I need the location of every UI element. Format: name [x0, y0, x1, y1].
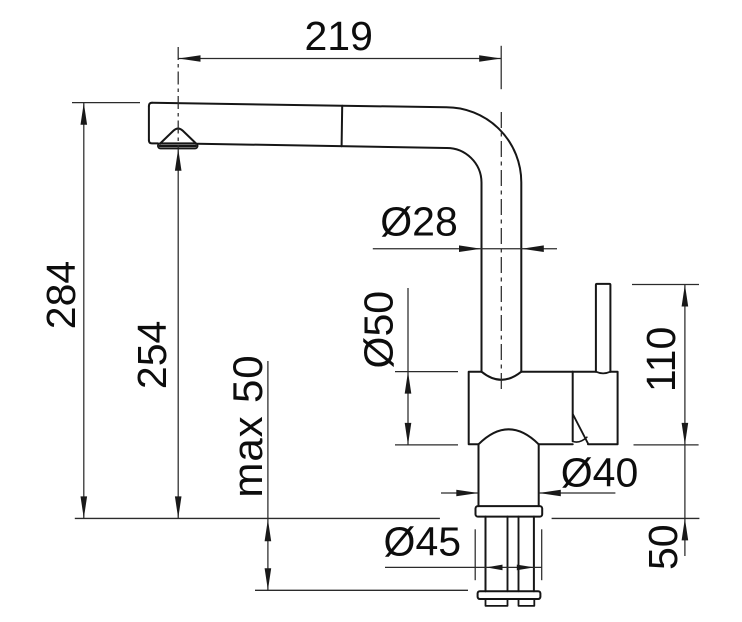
- arrow Ø45 left: [486, 565, 502, 571]
- aerator nozzle triangle: [160, 129, 196, 144]
- extension line 284 top: [72, 102, 140, 104]
- tail end tab right: [519, 599, 535, 606]
- extension line Ø50 bottom: [395, 444, 458, 446]
- spout joint line: [341, 106, 344, 146]
- arrow Ø45 right: [517, 565, 534, 571]
- handle cap: [573, 372, 618, 445]
- extension line 110 top: [632, 284, 699, 286]
- arrow max50 up: [265, 519, 272, 541]
- countertop line left: [75, 517, 440, 519]
- svg-text:254: 254: [129, 321, 175, 389]
- arrow max50 down: [265, 568, 272, 590]
- lower clamp plate: [478, 591, 541, 599]
- arrow 219 right: [479, 55, 501, 62]
- extension line Ø50 top: [395, 371, 458, 373]
- dimension line 110 and 50: [684, 285, 686, 557]
- lever motion arc: [573, 437, 587, 442]
- aerator plate: [158, 143, 198, 148]
- arrow 110 down: [682, 423, 689, 445]
- mounting flange: [476, 506, 543, 516]
- extension line 110 bottom: [634, 444, 699, 446]
- arrow 50 up: [682, 518, 689, 540]
- arrow 254 down: [175, 496, 182, 518]
- extension line Ø45 right: [541, 529, 543, 580]
- extension line 219 right: [500, 46, 502, 89]
- arrow Ø50 up: [405, 372, 412, 394]
- dimension line Ø45: [385, 566, 542, 568]
- lever base fillet: [596, 372, 611, 374]
- arrow 284 down: [81, 496, 88, 518]
- svg-text:Ø45: Ø45: [384, 519, 462, 565]
- arrow Ø40 left: [456, 490, 478, 497]
- dimension line 254: [177, 149, 179, 519]
- spout tube outline: [149, 103, 521, 372]
- svg-text:Ø40: Ø40: [561, 450, 639, 496]
- aerator centerline: [177, 47, 179, 148]
- arrow 254 up: [175, 149, 182, 171]
- threaded tail tube: [486, 517, 534, 592]
- pipe centerline: [500, 112, 502, 390]
- inner hose lines: [508, 517, 519, 592]
- arrow 284 up: [81, 103, 88, 125]
- dimension line max 50: [267, 361, 269, 590]
- countertop line right: [552, 517, 700, 519]
- body block: [469, 372, 573, 445]
- arrow 110 up: [682, 285, 689, 307]
- svg-text:Ø50: Ø50: [355, 291, 401, 369]
- svg-text:219: 219: [304, 13, 372, 59]
- handle lever: [596, 284, 611, 372]
- lever tilt diagonal: [573, 415, 588, 444]
- dimension line Ø40 right: [539, 492, 616, 494]
- dimension line 219: [179, 58, 502, 60]
- arrow Ø40 right: [539, 490, 561, 497]
- svg-text:50: 50: [640, 524, 686, 570]
- svg-text:284: 284: [38, 261, 84, 329]
- arrow Ø28 right: [522, 245, 544, 252]
- extension line Ø45 left: [474, 529, 476, 580]
- dimension line Ø50: [407, 288, 409, 445]
- tail end tab left: [486, 599, 508, 606]
- svg-text:110: 110: [638, 327, 684, 392]
- body-base dome arc: [479, 429, 539, 444]
- svg-text:max 50: max 50: [224, 354, 271, 497]
- arrow Ø50 down: [405, 423, 412, 445]
- dimension line 284: [83, 103, 85, 519]
- arrow Ø28 left: [459, 245, 481, 252]
- dimension line Ø28: [373, 248, 557, 250]
- lower reference line: [255, 589, 468, 591]
- arrow 219 left: [179, 55, 201, 62]
- svg-text:Ø28: Ø28: [380, 198, 458, 244]
- pipe-body saddle arc: [482, 372, 522, 380]
- base tube Ø40: [479, 444, 539, 506]
- dimension line Ø40 left: [441, 492, 478, 494]
